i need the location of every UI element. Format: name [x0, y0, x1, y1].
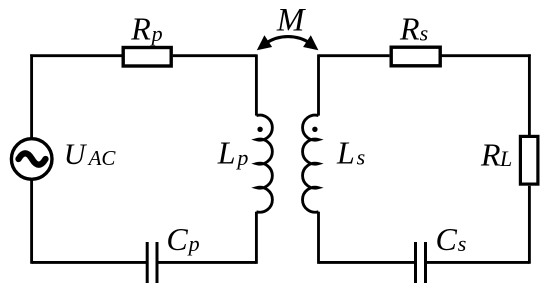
wire coil-Ls bottom lead [317, 212, 320, 264]
wire bottom from coil to cap [319, 261, 416, 264]
resistor Rp [123, 48, 171, 67]
capacitor Cs [416, 242, 426, 283]
arrowhead left [257, 35, 272, 50]
svg-text:L: L [336, 135, 355, 171]
svg-text:L: L [499, 146, 512, 171]
polarity dot Ls [312, 127, 317, 132]
wire left vertical upper [30, 54, 33, 137]
wire coil-Ls top lead [317, 54, 320, 115]
wire top-right from coil [319, 54, 390, 57]
wire bottom-right run [426, 261, 530, 264]
AC source UAC [11, 139, 52, 180]
wire right vertical upper [528, 54, 531, 135]
wire bottom-left cap to coil [157, 261, 256, 264]
svg-text:R: R [480, 136, 501, 172]
wire coil-Lp top lead [255, 54, 258, 115]
svg-text:C: C [166, 221, 188, 257]
resistor RL [520, 136, 538, 184]
sine wave of source [19, 153, 46, 164]
inductor Ls [303, 115, 319, 212]
wire left vertical lower [30, 181, 33, 264]
inductor Lp [256, 115, 272, 212]
wire coil-Lp bottom lead [255, 212, 258, 264]
svg-text:U: U [64, 138, 88, 171]
arrowhead right [303, 35, 318, 50]
wire top-right run [441, 54, 529, 57]
svg-text:s: s [458, 231, 467, 256]
svg-text:C: C [436, 221, 458, 257]
svg-text:s: s [420, 21, 429, 46]
svg-text:M: M [276, 3, 306, 39]
capacitor Cp [147, 242, 157, 283]
wire bottom-left run [32, 261, 148, 264]
polarity dot Lp [257, 127, 262, 132]
mutual inductance arrow M arc [266, 37, 311, 44]
svg-text:p: p [235, 145, 248, 170]
svg-text:L: L [217, 135, 236, 171]
wire right vertical lower [528, 186, 531, 264]
svg-text:R: R [130, 11, 151, 47]
wire top-left run [32, 54, 122, 57]
svg-text:R: R [399, 11, 420, 47]
wire top-left to coil [173, 54, 257, 57]
svg-text:p: p [187, 231, 200, 256]
svg-text:p: p [150, 21, 163, 46]
resistor Rs [391, 47, 440, 66]
svg-text:s: s [357, 145, 366, 170]
svg-text:AC: AC [87, 146, 117, 170]
